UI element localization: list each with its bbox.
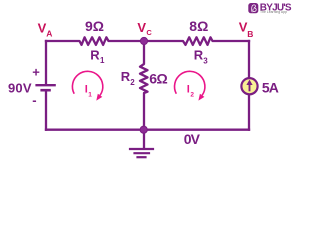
svg-text:I: I bbox=[187, 84, 190, 96]
svg-text:1: 1 bbox=[88, 92, 92, 99]
svg-text:R: R bbox=[90, 47, 100, 62]
svg-text:-: - bbox=[32, 93, 36, 108]
svg-text:9Ω: 9Ω bbox=[85, 18, 104, 34]
svg-text:0V: 0V bbox=[184, 131, 201, 147]
svg-text:90V: 90V bbox=[8, 81, 32, 96]
svg-text:I: I bbox=[85, 84, 88, 96]
svg-text:C: C bbox=[146, 28, 152, 37]
svg-text:6Ω: 6Ω bbox=[149, 70, 167, 86]
svg-text:2: 2 bbox=[130, 78, 135, 87]
svg-text:8Ω: 8Ω bbox=[189, 18, 208, 34]
svg-text:V: V bbox=[137, 20, 146, 35]
svg-text:5A: 5A bbox=[262, 79, 279, 95]
svg-text:2: 2 bbox=[190, 92, 194, 99]
svg-text:R: R bbox=[194, 47, 204, 62]
svg-text:+: + bbox=[32, 65, 40, 80]
svg-text:A: A bbox=[46, 29, 52, 39]
svg-text:B: B bbox=[247, 29, 253, 39]
svg-text:V: V bbox=[38, 20, 47, 35]
svg-text:1: 1 bbox=[100, 56, 105, 65]
svg-text:R: R bbox=[121, 69, 131, 84]
svg-text:3: 3 bbox=[203, 57, 208, 66]
